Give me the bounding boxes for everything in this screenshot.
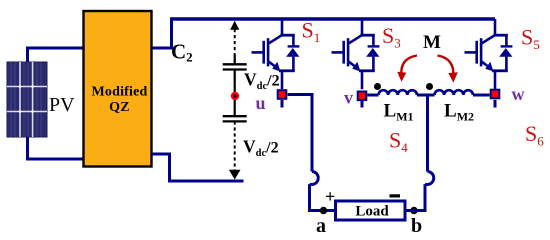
svg-text:b: b bbox=[411, 215, 422, 237]
wire coil centre bbox=[417, 94, 435, 97]
measurement arrow up (top Vdc/2) bbox=[234, 29, 236, 62]
wire b to coil centre corner bbox=[405, 184, 425, 210]
wire stub below w bbox=[494, 100, 497, 108]
wire QZ top-right lead bbox=[152, 19, 172, 48]
wire coil to w bbox=[473, 94, 490, 97]
svg-text:Modified: Modified bbox=[91, 85, 147, 100]
mutual arrow left bbox=[401, 56, 417, 77]
node b dot bbox=[410, 207, 417, 214]
capacitor upper (Vdc/2) bbox=[223, 55, 247, 93]
node u red square bbox=[278, 90, 287, 99]
svg-text:LM1: LM1 bbox=[384, 101, 414, 124]
svg-text:S6: S6 bbox=[525, 121, 544, 149]
wire QZ bottom-right lead bbox=[152, 154, 244, 181]
svg-text:M: M bbox=[423, 32, 441, 53]
node midpoint red dot bbox=[231, 92, 239, 100]
svg-text:C2: C2 bbox=[171, 40, 193, 65]
Modified QZ converter box bbox=[84, 11, 152, 167]
wire up to coil junction bbox=[426, 95, 429, 172]
polarity dot LM1 bbox=[374, 83, 381, 90]
mutual arrow right bbox=[438, 56, 454, 78]
svg-text:Vdc/2: Vdc/2 bbox=[243, 137, 279, 160]
wire down to a bbox=[310, 184, 336, 210]
svg-text:Vdc/2: Vdc/2 bbox=[244, 70, 280, 93]
capacitor lower (Vdc/2) bbox=[223, 100, 247, 121]
wire u to load corner bbox=[288, 95, 312, 172]
IGBT S5 bbox=[465, 19, 513, 89]
wire hop a-side bbox=[310, 172, 319, 185]
svg-text:S4: S4 bbox=[389, 128, 408, 156]
measurement arrow down (bottom Vdc/2) bbox=[234, 121, 236, 171]
svg-text:S1: S1 bbox=[302, 18, 321, 46]
wire stub below v bbox=[361, 100, 364, 107]
Load box bbox=[336, 201, 406, 220]
inductor LM2 bbox=[435, 90, 473, 95]
svg-text:PV: PV bbox=[49, 94, 75, 116]
node a dot bbox=[320, 207, 327, 214]
svg-text:S3: S3 bbox=[382, 23, 401, 51]
svg-text:a: a bbox=[316, 215, 326, 237]
svg-text:u: u bbox=[256, 93, 266, 113]
svg-text:S5: S5 bbox=[521, 25, 540, 53]
IGBT S3 bbox=[332, 19, 380, 89]
wire PV bottom lead bbox=[26, 158, 84, 161]
wire stub below u bbox=[281, 100, 284, 108]
inductor LM1 bbox=[379, 90, 417, 95]
wire v to coil bbox=[367, 94, 378, 97]
svg-text:+: + bbox=[325, 187, 335, 207]
node v red square bbox=[358, 92, 367, 101]
wire PV top lead bbox=[26, 47, 84, 50]
wire PV vertical bbox=[26, 48, 29, 62]
node w red square bbox=[491, 90, 500, 99]
wire hop b-side bbox=[425, 172, 434, 185]
minus sign bbox=[390, 194, 401, 197]
wire top DC rail bbox=[170, 17, 495, 20]
IGBT S1 bbox=[252, 19, 300, 89]
svg-text:LM2: LM2 bbox=[444, 101, 474, 124]
polarity dot LM2 bbox=[426, 83, 433, 90]
svg-text:QZ: QZ bbox=[109, 100, 130, 115]
svg-text:Load: Load bbox=[355, 204, 389, 220]
svg-text:v: v bbox=[344, 88, 353, 108]
wire PV vertical lower bbox=[26, 137, 29, 159]
PV panel bbox=[7, 62, 47, 137]
svg-text:w: w bbox=[512, 84, 525, 104]
